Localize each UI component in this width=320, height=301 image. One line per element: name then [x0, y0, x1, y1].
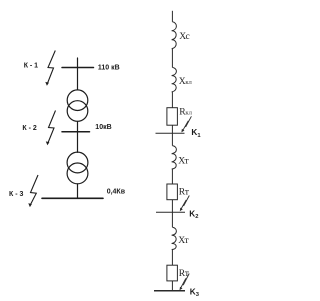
svg-text:К - 2: К - 2	[22, 125, 36, 132]
svg-text:К - 1: К - 1	[24, 63, 38, 70]
svg-text:0,4Кв: 0,4Кв	[107, 188, 126, 195]
svg-text:Xт: Xт	[178, 235, 189, 246]
svg-text:110 кВ: 110 кВ	[98, 65, 120, 72]
svg-text:Rт: Rт	[179, 187, 190, 198]
svg-text:10кВ: 10кВ	[95, 124, 111, 131]
svg-text:Xт: Xт	[178, 156, 189, 167]
svg-text:Rт: Rт	[179, 268, 190, 279]
svg-text:К - 3: К - 3	[9, 191, 23, 198]
svg-text:Xс: Xс	[179, 31, 190, 42]
